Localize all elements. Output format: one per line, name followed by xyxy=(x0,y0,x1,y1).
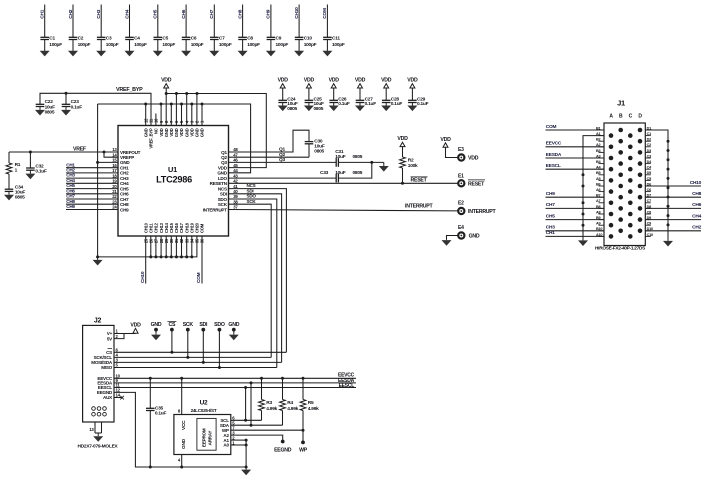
capacitor C8 xyxy=(238,36,260,49)
wire A1 A0 ground xyxy=(245,440,247,467)
node C31 C33 junction xyxy=(370,161,373,164)
node SCK stub xyxy=(183,322,194,357)
ground C10 xyxy=(294,50,304,56)
svg-text:0.1uF: 0.1uF xyxy=(338,101,350,107)
wire U2 WP xyxy=(231,429,303,431)
wire J1 CH2 xyxy=(645,225,701,231)
svg-text:R2: R2 xyxy=(408,158,414,164)
node VDD bus junction xyxy=(196,92,199,95)
svg-text:C5: C5 xyxy=(162,36,168,42)
svg-text:0805: 0805 xyxy=(314,149,324,155)
wire EESDA drop xyxy=(250,383,252,425)
node bottom bus junction xyxy=(190,255,193,258)
svg-text:RESET: RESET xyxy=(411,178,428,184)
node R5 EEVCC junction xyxy=(302,377,305,380)
ground C9 xyxy=(266,50,276,56)
wire EESDA net xyxy=(114,378,356,384)
capacitor C4 xyxy=(125,36,147,49)
svg-text:CH9: CH9 xyxy=(266,9,272,18)
svg-text:VDD: VDD xyxy=(397,136,408,142)
node bottom bus junction xyxy=(170,255,173,258)
wire LDO xyxy=(229,177,337,179)
svg-text:A8: A8 xyxy=(596,210,600,214)
svg-text:C6: C6 xyxy=(191,36,197,42)
capacitor C29 xyxy=(408,96,428,107)
wire U2 SDA xyxy=(231,424,283,426)
svg-text:0.1uF: 0.1uF xyxy=(365,101,377,107)
svg-text:C5: C5 xyxy=(647,177,651,181)
wire SDI xyxy=(229,188,282,362)
svg-text:C2: C2 xyxy=(647,143,651,147)
power VDD (top) xyxy=(161,78,172,94)
svg-text:CH3: CH3 xyxy=(96,9,102,18)
svg-text:R4: R4 xyxy=(287,400,293,406)
svg-text:GND: GND xyxy=(200,128,205,137)
node SDI junction xyxy=(202,361,205,364)
node J1 right gnd junction xyxy=(667,158,670,161)
svg-text:B3: B3 xyxy=(596,149,600,153)
svg-text:R1: R1 xyxy=(15,162,21,168)
power VDD C29 xyxy=(407,78,418,101)
node GND bus junction xyxy=(144,103,147,106)
svg-text:COM: COM xyxy=(196,272,202,283)
svg-text:J2: J2 xyxy=(94,318,102,325)
svg-text:R5: R5 xyxy=(308,400,314,406)
wire U1 bottom pin 34 xyxy=(191,236,193,257)
svg-text:CH5: CH5 xyxy=(546,213,555,219)
node EEGND rail end xyxy=(245,466,248,469)
svg-text:C3: C3 xyxy=(647,154,651,158)
svg-text:CH4: CH4 xyxy=(66,178,75,183)
node A0 junction xyxy=(245,444,248,447)
node bottom bus junction xyxy=(165,255,168,258)
svg-text:VDD: VDD xyxy=(304,78,315,84)
wire U1 top VDD pin 4 xyxy=(186,94,188,126)
svg-text:VDD: VDD xyxy=(440,137,451,143)
node CS stub xyxy=(167,322,176,353)
svg-text:C2: C2 xyxy=(78,36,84,42)
wire J1 CH5 xyxy=(546,213,605,219)
svg-text:EEVCC: EEVCC xyxy=(546,141,562,147)
svg-text:4.99k: 4.99k xyxy=(308,406,319,412)
svg-text:CH8: CH8 xyxy=(66,199,75,204)
svg-text:LDO: LDO xyxy=(218,176,228,181)
svg-text:A0: A0 xyxy=(223,443,229,448)
node J1 right gnd junction xyxy=(667,186,670,189)
svg-text:COM: COM xyxy=(546,124,557,130)
svg-text:100pF: 100pF xyxy=(78,42,91,48)
svg-text:VDD: VDD xyxy=(130,322,141,328)
svg-text:CH9: CH9 xyxy=(66,204,75,209)
wire CH8 stub xyxy=(66,199,118,204)
ground C4 xyxy=(125,50,135,56)
node C23 junction xyxy=(65,92,68,95)
wire U1 bottom pin 33 xyxy=(186,236,188,257)
node SDO junction xyxy=(218,366,221,369)
svg-text:CH10: CH10 xyxy=(140,271,146,283)
svg-text:CH8: CH8 xyxy=(237,9,243,18)
svg-text:D5: D5 xyxy=(647,171,651,175)
power VDD E3 xyxy=(440,137,458,158)
svg-text:VDD: VDD xyxy=(161,78,172,84)
resistor R2 xyxy=(400,157,418,183)
node bottom bus GND junction xyxy=(96,255,99,258)
svg-text:D2: D2 xyxy=(647,138,651,142)
node J1 right gnd junction xyxy=(667,205,670,208)
ground J1 right xyxy=(663,239,673,247)
svg-text:VREF: VREF xyxy=(73,146,86,152)
wire U1 bottom pin 28 xyxy=(160,236,162,257)
wire U1 bottom pin 29 xyxy=(165,236,167,257)
svg-text:C31: C31 xyxy=(335,149,344,155)
node bottom bus junction xyxy=(154,255,157,258)
capacitor C34 xyxy=(5,185,26,201)
ground C32 xyxy=(25,170,35,179)
svg-text:GND: GND xyxy=(469,233,480,239)
svg-text:C6: C6 xyxy=(647,188,651,192)
svg-text:CH2: CH2 xyxy=(692,225,701,231)
wire U1 bottom pin 26 xyxy=(150,236,152,257)
svg-text:U1: U1 xyxy=(168,165,177,174)
capacitor C25 xyxy=(305,96,324,112)
node J1 right gnd junction xyxy=(667,149,670,152)
wire U1 top GND pin 3 xyxy=(191,104,193,126)
svg-text:C8: C8 xyxy=(647,210,651,214)
node EESCL drop top xyxy=(244,386,247,389)
node J1 right gnd junction xyxy=(667,168,670,171)
power VDD C26 xyxy=(329,78,340,101)
node J1 left gnd junction xyxy=(582,185,585,188)
node WP stub xyxy=(299,430,308,453)
wire CH4 stub xyxy=(66,178,118,183)
wire J1 CH1 xyxy=(546,230,605,236)
svg-text:CH10: CH10 xyxy=(690,180,702,186)
svg-text:CH2: CH2 xyxy=(68,9,74,18)
wire J1 EEVCC xyxy=(546,141,605,147)
node bottom bus junction xyxy=(180,255,183,258)
svg-text:EEGND: EEGND xyxy=(274,447,292,453)
node GND vertical pin15 junction xyxy=(96,161,99,164)
svg-text:INTERRUPT: INTERRUPT xyxy=(405,204,434,210)
svg-text:CH4: CH4 xyxy=(692,213,701,219)
svg-text:WP: WP xyxy=(299,447,308,453)
ground J1 left xyxy=(578,238,588,246)
wire U1 top GND pin 5 xyxy=(181,104,183,126)
svg-text:EESCL: EESCL xyxy=(546,163,561,169)
node J1 right gnd junction xyxy=(667,196,670,199)
capacitor C23 xyxy=(62,93,82,110)
capacitor C26 xyxy=(329,96,349,107)
node J1 right gnd junction xyxy=(667,177,670,180)
node bottom bus junction xyxy=(160,255,163,258)
svg-text:100pF: 100pF xyxy=(247,42,260,48)
ground C26 xyxy=(329,103,339,112)
wire VREF_BYP xyxy=(40,87,151,125)
turret E1 xyxy=(458,173,485,187)
svg-text:0.1uF: 0.1uF xyxy=(391,101,403,107)
wire bottom GND bus xyxy=(98,236,197,257)
node A1 junction xyxy=(245,439,248,442)
wire J1 EESCL xyxy=(546,163,605,169)
svg-text:CH4: CH4 xyxy=(124,9,130,18)
svg-text:C7: C7 xyxy=(219,36,225,42)
ground C27 xyxy=(355,103,365,112)
node R3 EEVCC junction xyxy=(260,377,263,380)
node VDD bus junction xyxy=(185,92,188,95)
node GND bus junction xyxy=(201,103,204,106)
ground C5 xyxy=(153,50,163,56)
node EEGND stub xyxy=(274,440,292,454)
node VDD bus junction xyxy=(165,92,168,95)
capacitor C9 xyxy=(267,36,289,49)
wire CH5 stub xyxy=(66,183,118,188)
wire J1 CH10 xyxy=(645,180,701,186)
resistor R1 xyxy=(6,152,21,189)
svg-text:0.1uF: 0.1uF xyxy=(71,104,83,110)
wire U1 top VDD pin 6 xyxy=(175,94,177,126)
wire J2 V+ 5V tie xyxy=(114,334,136,339)
node U2 VCC junction xyxy=(180,377,183,380)
wire J1 left ground xyxy=(583,136,604,238)
wire EEGND net xyxy=(114,392,246,467)
svg-text:Q1: Q1 xyxy=(279,147,285,153)
svg-text:GND: GND xyxy=(181,438,187,449)
wire CH3 stub xyxy=(66,173,118,178)
node GND bus junction xyxy=(170,103,173,106)
svg-text:C7: C7 xyxy=(647,199,651,203)
capacitor C32 xyxy=(26,152,47,175)
svg-text:VDD: VDD xyxy=(355,78,366,84)
ground C25 xyxy=(304,103,314,112)
wire MOSI/SDA net xyxy=(114,361,282,363)
node EESDA drop top xyxy=(250,381,253,384)
node VDD bus junction xyxy=(175,92,178,95)
wire EESCL drop xyxy=(245,388,247,421)
svg-text:C3: C3 xyxy=(106,36,112,42)
wire J1 CH6 xyxy=(645,202,701,208)
svg-text:CH8: CH8 xyxy=(692,191,701,197)
wire C31 to ground xyxy=(338,161,383,163)
capacitor C6 xyxy=(182,36,204,49)
svg-text:100pF: 100pF xyxy=(106,42,119,48)
wire SDO xyxy=(229,194,277,368)
wire E4 GND xyxy=(447,236,459,240)
power VDD C24 xyxy=(278,78,289,101)
ground stub 2 xyxy=(229,334,239,341)
wire EESCL net xyxy=(114,383,356,389)
wire U1 top GND pin 7 xyxy=(170,104,172,126)
svg-text:C10: C10 xyxy=(304,36,313,42)
wire J1 CH4 xyxy=(645,213,701,219)
power VDD R2 xyxy=(397,136,408,157)
svg-text:CH5: CH5 xyxy=(153,9,159,18)
svg-text:C4: C4 xyxy=(134,36,140,42)
node R4 EEVCC junction xyxy=(281,377,284,380)
wire Q2 xyxy=(229,152,310,158)
node GND bus junction xyxy=(180,103,183,106)
node WP junction xyxy=(302,429,305,432)
wire J1 COM xyxy=(546,124,605,130)
svg-text:CH7: CH7 xyxy=(546,202,555,208)
svg-text:C1: C1 xyxy=(647,132,651,136)
wire U1 bottom pin 31 xyxy=(175,236,177,257)
svg-text:CH9: CH9 xyxy=(546,191,555,197)
ground E4 xyxy=(442,239,452,245)
wire J1 D1 ground xyxy=(645,130,668,239)
svg-text:COM: COM xyxy=(200,223,205,233)
svg-text:VDD: VDD xyxy=(468,155,479,161)
svg-text:4.99k: 4.99k xyxy=(266,406,277,412)
wire CH6 stub xyxy=(66,188,118,193)
svg-text:A6: A6 xyxy=(596,188,600,192)
wire CH7 stub xyxy=(66,194,118,199)
svg-text:C33: C33 xyxy=(320,170,329,176)
wire CH4 top column xyxy=(124,5,130,51)
svg-text:COM: COM xyxy=(322,8,328,19)
ground bottom bus xyxy=(93,257,103,266)
svg-text:SCK: SCK xyxy=(183,322,194,328)
wire CH5 top column xyxy=(153,5,159,51)
capacitor C24 xyxy=(278,96,297,112)
svg-text:CH1: CH1 xyxy=(546,230,555,236)
svg-text:C10: C10 xyxy=(647,233,653,237)
capacitor C5 xyxy=(154,36,176,49)
svg-text:J1: J1 xyxy=(617,99,625,108)
svg-text:VREF_BYP: VREF_BYP xyxy=(116,87,143,93)
wire CH3 top column xyxy=(96,5,102,51)
wire U2 A0 xyxy=(231,444,246,446)
wire GND vertical xyxy=(97,104,99,257)
ground EEGND rail xyxy=(241,467,251,475)
resistor R3 xyxy=(259,378,278,420)
node VREF R1 junction xyxy=(29,151,32,154)
node CS junction xyxy=(170,351,173,354)
svg-text:C9: C9 xyxy=(647,222,651,226)
svg-text:SDO: SDO xyxy=(218,197,228,202)
svg-text:GND: GND xyxy=(228,322,239,328)
wire VDD bus xyxy=(166,94,266,168)
node C35 EEVCC junction xyxy=(149,377,152,380)
node C35 EEGND junction xyxy=(149,466,152,469)
node J1 right gnd junction xyxy=(667,140,670,143)
capacitor C3 xyxy=(97,36,119,49)
svg-text:0805: 0805 xyxy=(15,195,25,201)
ground C6 xyxy=(181,50,191,56)
svg-text:100pF: 100pF xyxy=(219,42,232,48)
svg-text:VDD: VDD xyxy=(381,78,392,84)
svg-text:Q3: Q3 xyxy=(221,160,227,165)
node GND bus junction xyxy=(160,103,163,106)
node R2 RESET junction xyxy=(401,182,404,185)
svg-text:AUX: AUX xyxy=(103,395,113,400)
wire CH6 top column xyxy=(181,5,187,51)
svg-text:E3: E3 xyxy=(458,147,464,153)
wire CH1 top column xyxy=(40,5,46,51)
svg-text:CH6: CH6 xyxy=(181,9,187,18)
wire J1 CH3 xyxy=(546,225,605,231)
wire U1 top GND pin 9 xyxy=(160,104,162,126)
wire CH9 stub xyxy=(66,204,118,209)
svg-text:SDO: SDO xyxy=(214,322,225,328)
svg-text:MISO: MISO xyxy=(101,365,112,370)
wire U2 SCL xyxy=(231,419,262,421)
svg-text:GND: GND xyxy=(151,322,162,328)
wire U2 VCC pin8 xyxy=(178,378,182,414)
wire J1 CH8 xyxy=(645,191,701,197)
wire CH7 top column xyxy=(209,5,215,51)
capacitor C30 xyxy=(305,139,325,158)
wire CH2 stub xyxy=(66,168,118,173)
capacitor C11 xyxy=(323,36,345,49)
ground C24 xyxy=(278,103,288,112)
svg-text:100pF: 100pF xyxy=(162,42,175,48)
svg-text:C32: C32 xyxy=(35,163,44,169)
svg-text:CH1: CH1 xyxy=(40,9,46,18)
svg-text:100pF: 100pF xyxy=(304,42,317,48)
ground C34 xyxy=(4,191,14,200)
wire INTERRUPT xyxy=(229,204,459,211)
svg-text:Q3: Q3 xyxy=(279,157,285,163)
svg-text:A7: A7 xyxy=(596,199,600,203)
svg-text:0805: 0805 xyxy=(287,106,297,112)
ground C8 xyxy=(238,50,248,56)
svg-text:C34: C34 xyxy=(15,185,24,191)
node GND stub 1 xyxy=(151,322,162,333)
wire U1 bottom pin 32 xyxy=(181,236,183,257)
wire Q3 xyxy=(229,157,337,163)
ground C7 xyxy=(209,50,219,56)
connector J1 xyxy=(595,99,653,251)
op-amp U1 LTC2986 xyxy=(112,118,238,243)
svg-text:INTERRUPT: INTERRUPT xyxy=(468,209,497,215)
svg-text:RESET: RESET xyxy=(468,182,485,188)
ground C23 xyxy=(61,107,71,116)
ground Q3 filter xyxy=(379,162,389,171)
wire CH10 bottom stub xyxy=(140,236,146,284)
wire U2 A2 xyxy=(231,435,283,440)
svg-text:R3: R3 xyxy=(266,400,272,406)
svg-text:C9: C9 xyxy=(276,36,282,42)
node GND bus junction xyxy=(190,103,193,106)
wire U1 top VDD pin 2 xyxy=(196,94,198,126)
node GND stub 2 xyxy=(228,322,239,333)
svg-text:SDI: SDI xyxy=(199,322,208,328)
svg-text:100k: 100k xyxy=(408,163,418,169)
wire CH1 stub xyxy=(66,162,118,167)
wire CH2 top column xyxy=(68,5,74,51)
svg-text:Q2: Q2 xyxy=(279,152,285,158)
capacitor C2 xyxy=(69,36,91,49)
wire NCS xyxy=(229,183,287,352)
ground J2 mount xyxy=(93,433,103,442)
wire U1 pin 10 NC stub xyxy=(155,114,157,126)
node U2 GND junction xyxy=(180,466,183,469)
svg-text:C23: C23 xyxy=(71,99,80,105)
node VREF pin14 junction xyxy=(103,151,106,154)
power VDD C27 xyxy=(355,78,366,101)
svg-text:CH3: CH3 xyxy=(120,176,129,181)
node EESCL drop bottom xyxy=(244,419,247,422)
wire U1 bottom pin 30 xyxy=(170,236,172,257)
wire J1 CH7 xyxy=(546,202,605,208)
power VDD C28 xyxy=(381,78,392,101)
svg-text:A5: A5 xyxy=(596,177,600,181)
svg-text:0.1uF: 0.1uF xyxy=(155,411,167,417)
svg-text:EESDA: EESDA xyxy=(546,152,562,158)
ground stub 1 xyxy=(151,334,161,341)
wire U1 top VDD pin 8 xyxy=(165,94,167,126)
node SDI stub xyxy=(199,322,208,362)
